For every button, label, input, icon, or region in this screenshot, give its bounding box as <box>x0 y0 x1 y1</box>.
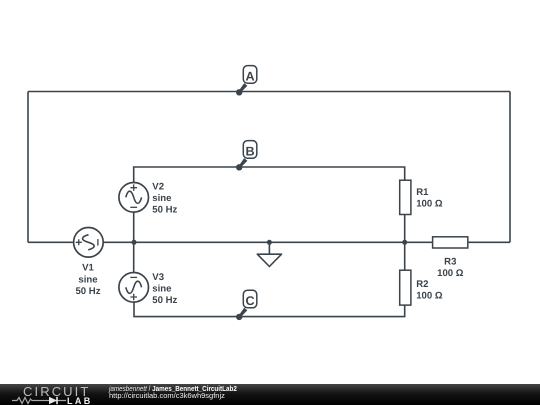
svg-text:V3: V3 <box>152 272 164 283</box>
node flag C <box>236 290 257 320</box>
wire R2 top <box>404 242 406 270</box>
wire net C from R2 to V3 <box>134 302 405 316</box>
resistor R3 <box>433 237 468 248</box>
node flag A <box>236 66 257 96</box>
label V3 value <box>152 272 177 306</box>
wire left edge <box>27 92 29 243</box>
svg-text:A: A <box>245 70 254 84</box>
svg-text:sine: sine <box>78 275 97 286</box>
svg-text:100 Ω: 100 Ω <box>416 290 443 301</box>
ground <box>257 240 281 267</box>
voltage source V1 <box>74 228 104 258</box>
footer bar <box>0 384 540 405</box>
label R1 value <box>416 187 443 209</box>
svg-text:100 Ω: 100 Ω <box>437 268 464 279</box>
svg-text:V2: V2 <box>152 181 164 192</box>
wire R3 left <box>405 241 433 243</box>
svg-text:B: B <box>245 145 254 159</box>
junction node R1 R2 R3 <box>402 240 407 245</box>
credit text line 1 <box>109 385 237 393</box>
node flag B <box>236 141 257 171</box>
svg-text:50 Hz: 50 Hz <box>152 205 177 216</box>
junction node V branch <box>132 240 137 245</box>
wire net A top <box>28 91 510 93</box>
CircuitLab logo resistor-diode glyph <box>11 396 67 405</box>
wire V1 left <box>28 241 74 243</box>
wire R1 bottom <box>404 215 406 243</box>
resistor R2 <box>400 270 411 305</box>
svg-text:R3: R3 <box>444 256 456 267</box>
label V1 value <box>75 263 100 298</box>
wire V3 top <box>133 242 135 272</box>
svg-text:R1: R1 <box>416 187 429 198</box>
label V2 value <box>152 181 177 215</box>
label R2 value <box>416 279 443 301</box>
resistor R1 <box>400 180 411 214</box>
svg-text:50 Hz: 50 Hz <box>152 295 177 306</box>
wire net B from V2 to R1 <box>134 167 405 183</box>
svg-text:C: C <box>245 294 254 308</box>
svg-text:sine: sine <box>152 284 171 295</box>
wire right edge <box>509 92 511 243</box>
voltage source V3 <box>119 273 149 303</box>
credit text line 2 <box>109 392 225 400</box>
svg-text:R2: R2 <box>416 279 428 290</box>
svg-text:50 Hz: 50 Hz <box>75 286 100 297</box>
svg-text:100 Ω: 100 Ω <box>416 198 443 209</box>
CircuitLab logo LAB <box>67 396 93 405</box>
wire V1 right <box>103 241 405 243</box>
svg-text:V1: V1 <box>82 263 94 274</box>
wire V2 branch down <box>133 212 135 242</box>
svg-text:sine: sine <box>152 193 171 204</box>
wire R3 right <box>468 241 510 243</box>
voltage source V2 <box>119 183 149 213</box>
label R3 value <box>437 256 464 278</box>
CircuitLab logo wordmark <box>23 384 90 399</box>
